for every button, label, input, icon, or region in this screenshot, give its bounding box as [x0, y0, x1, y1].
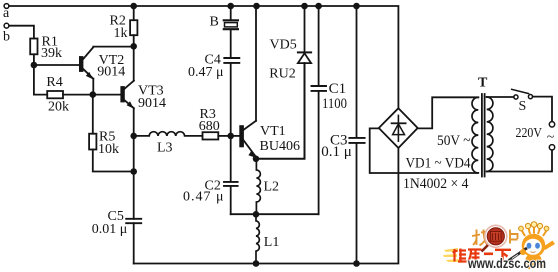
- watermark text weiku: [453, 249, 512, 262]
- watermark mascot: [508, 222, 555, 269]
- svg-text:L3: L3: [157, 141, 173, 156]
- node R2 bottom: [130, 43, 137, 50]
- wire R4 to VT3 base: [63, 94, 121, 96]
- svg-text:10k: 10k: [98, 142, 119, 157]
- svg-text:0.1 μ: 0.1 μ: [321, 144, 352, 160]
- node rail C1: [315, 3, 322, 10]
- wire down: [133, 136, 135, 172]
- resistor R4: [47, 91, 63, 98]
- svg-text:9014: 9014: [138, 96, 166, 111]
- wire switch to terminal: [533, 97, 552, 122]
- node bottom C3: [353, 260, 360, 267]
- node bottom L1: [253, 260, 260, 267]
- resistor R5: [92, 95, 94, 134]
- watermark pian glyph: [510, 230, 519, 244]
- terminal a: [4, 4, 9, 9]
- inductor L3: [134, 132, 203, 136]
- svg-text:0.47 μ: 0.47 μ: [183, 190, 224, 205]
- capacitor C5: [126, 219, 141, 223]
- svg-text:a: a: [3, 6, 10, 21]
- svg-text:L1: L1: [264, 235, 280, 250]
- svg-text:L2: L2: [264, 180, 280, 195]
- capacitor C2: [230, 136, 232, 182]
- terminal 220V bottom: [549, 145, 554, 150]
- node rail VT1 collector: [253, 3, 260, 10]
- node VT1 base: [227, 133, 234, 140]
- svg-text:0.01 μ: 0.01 μ: [92, 222, 128, 237]
- svg-text:50V ~: 50V ~: [437, 133, 471, 149]
- crystal B: [224, 6, 238, 58]
- svg-text:1k: 1k: [114, 26, 128, 41]
- capacitor C4: [224, 58, 239, 63]
- svg-text:680: 680: [199, 119, 220, 134]
- resistor R1: [30, 39, 37, 55]
- wire primary top: [487, 96, 514, 98]
- svg-text:C1: C1: [329, 81, 347, 97]
- node rail B: [227, 3, 234, 10]
- svg-text:1100: 1100: [322, 96, 347, 112]
- wire VT2 collector: [93, 46, 133, 48]
- wire down to R4: [34, 65, 47, 95]
- inductor L2: [256, 159, 260, 215]
- watermark logo: [443, 222, 555, 271]
- bridge rectifier VD1-VD4: [379, 108, 418, 148]
- wire primary bottom: [487, 150, 552, 171]
- transistor VT3: [121, 81, 134, 109]
- wire VT3 emitter down: [133, 108, 135, 136]
- svg-text:RU2: RU2: [269, 66, 295, 81]
- svg-text:VT1: VT1: [260, 124, 286, 139]
- svg-text:VD1 ~ VD4: VD1 ~ VD4: [406, 156, 471, 172]
- svg-text:VD5: VD5: [270, 37, 297, 52]
- svg-text:~: ~: [547, 130, 555, 145]
- wire AC left: [370, 128, 478, 173]
- capacitor C1: [318, 6, 320, 86]
- svg-text:R4: R4: [46, 75, 62, 90]
- transformer T primary winding: [487, 97, 493, 171]
- watermark zhao glyph: [472, 230, 488, 246]
- diode VD5: [298, 6, 311, 63]
- transformer core: [482, 94, 485, 177]
- svg-text:20k: 20k: [48, 100, 69, 115]
- node rail R2: [130, 3, 137, 10]
- svg-text:S: S: [519, 99, 527, 114]
- svg-text:b: b: [3, 30, 10, 45]
- transistor VT1: [231, 121, 256, 158]
- wire VT2 emitter down: [92, 79, 94, 95]
- switch S: [512, 89, 533, 99]
- svg-text:0.47 μ: 0.47 μ: [188, 65, 224, 80]
- wire VT1 collector riser: [255, 6, 257, 121]
- transistor VT2: [80, 47, 93, 79]
- node R1 bottom: [31, 62, 38, 69]
- node VT1 emitter: [253, 156, 260, 163]
- svg-text:1N4002 × 4: 1N4002 × 4: [403, 176, 469, 192]
- wire b to R1: [9, 26, 34, 39]
- terminal b: [4, 23, 9, 28]
- terminal 220V top: [549, 122, 554, 127]
- resistor R2: [133, 6, 135, 20]
- svg-text:9014: 9014: [97, 65, 125, 80]
- wire bottom rail: [134, 148, 399, 264]
- node rail VD5: [301, 3, 308, 10]
- wire to VT2 base: [34, 64, 80, 66]
- node VT2 emitter junction: [90, 91, 97, 98]
- node R5 return: [130, 168, 137, 175]
- node L2 bottom: [253, 211, 260, 218]
- svg-text:T: T: [478, 76, 488, 91]
- svg-text:BU406: BU406: [260, 139, 301, 154]
- svg-text:www.dzsc.com: www.dzsc.com: [467, 256, 546, 271]
- wire emitter to VD5: [256, 63, 305, 159]
- wire VT3 collector riser: [133, 46, 135, 80]
- svg-text:39k: 39k: [41, 46, 62, 61]
- node rail C3: [353, 3, 360, 10]
- svg-text:B: B: [210, 15, 219, 30]
- capacitor C3: [356, 6, 358, 138]
- transformer T secondary winding: [472, 97, 478, 173]
- inductor L1: [256, 214, 259, 263]
- wire down to C5: [133, 172, 135, 219]
- svg-text:220V: 220V: [516, 126, 543, 141]
- wire mid: [231, 213, 319, 215]
- wire AC right: [418, 97, 479, 128]
- watermark magnifier: [482, 225, 507, 251]
- node L3 tap: [130, 133, 137, 140]
- wire top rail: [9, 6, 398, 108]
- resistor R3: [203, 132, 219, 139]
- watermark swoosh: [443, 248, 459, 262]
